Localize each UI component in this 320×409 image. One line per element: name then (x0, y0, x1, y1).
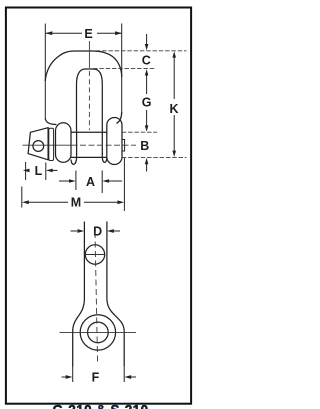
dimension M (21, 187, 23, 208)
dimension L (25, 162, 27, 180)
dimension B bottom arrow (145, 158, 149, 164)
pin bottom / K bottom dashed extension (122, 156, 187, 158)
dimension E (45, 24, 121, 119)
eye horizontal centerline (60, 331, 137, 333)
border frame (6, 8, 191, 404)
pin horizontal centerline (23, 144, 72, 146)
svg-text:E: E (84, 27, 92, 41)
left leg bottom round (71, 157, 77, 164)
svg-text:G-210 & S-210: G-210 & S-210 (53, 402, 149, 409)
eye boss circle (80, 315, 115, 350)
right leg bottom round (102, 157, 107, 162)
left leg inner edge lower part (76, 131, 78, 157)
side view body right line (107, 222, 124, 367)
svg-text:L: L (35, 164, 43, 178)
side view vertical centerline (95, 232, 98, 364)
bow vertical centerline (88, 41, 90, 68)
dimension A (75, 171, 77, 191)
right leg boss (107, 118, 122, 165)
outer left edge curve into boss (45, 118, 56, 125)
cross-section circle horizontal centerline (85, 254, 105, 256)
dimension D (71, 230, 78, 232)
svg-text:D: D (93, 225, 102, 239)
pin flange (49, 128, 54, 160)
pin protruding tip (122, 140, 125, 152)
side view body left line (73, 222, 85, 367)
svg-text:G: G (142, 96, 152, 110)
svg-text:C: C (142, 54, 151, 68)
bow cross-section circle (85, 245, 104, 264)
shackle bow outer contour (45, 51, 122, 81)
C top dashed line (tangent bow top) (90, 50, 187, 52)
svg-text:F: F (92, 371, 100, 385)
pin shaft edges (71, 131, 107, 133)
dimension K (172, 51, 176, 57)
dimension G (145, 69, 149, 75)
pin head hole circle (33, 141, 44, 152)
pin top dashed extension (122, 131, 157, 133)
svg-text:B: B (140, 139, 149, 153)
svg-text:K: K (169, 102, 178, 116)
screw pin head (28, 128, 48, 160)
G top dashed line (tangent inner arch top) (93, 68, 156, 70)
dimension C (146, 34, 148, 45)
dimension F (72, 367, 74, 383)
svg-text:M: M (71, 196, 81, 210)
shackle bow inner opening (77, 69, 103, 157)
svg-text:A: A (86, 175, 95, 189)
eye hole circle (88, 322, 109, 343)
outer right edge curve into boss (117, 112, 122, 124)
left leg boss (56, 123, 72, 163)
